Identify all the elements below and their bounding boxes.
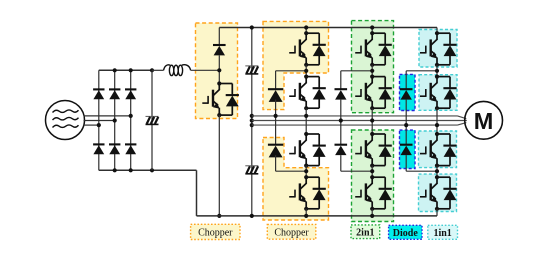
svg-text:M: M [474,108,494,134]
svg-text:1in1: 1in1 [433,228,451,239]
svg-text:Diode: Diode [393,228,419,239]
svg-text:2in1: 2in1 [356,227,374,238]
svg-text:Chopper: Chopper [198,228,233,239]
svg-text:Chopper: Chopper [274,227,309,238]
